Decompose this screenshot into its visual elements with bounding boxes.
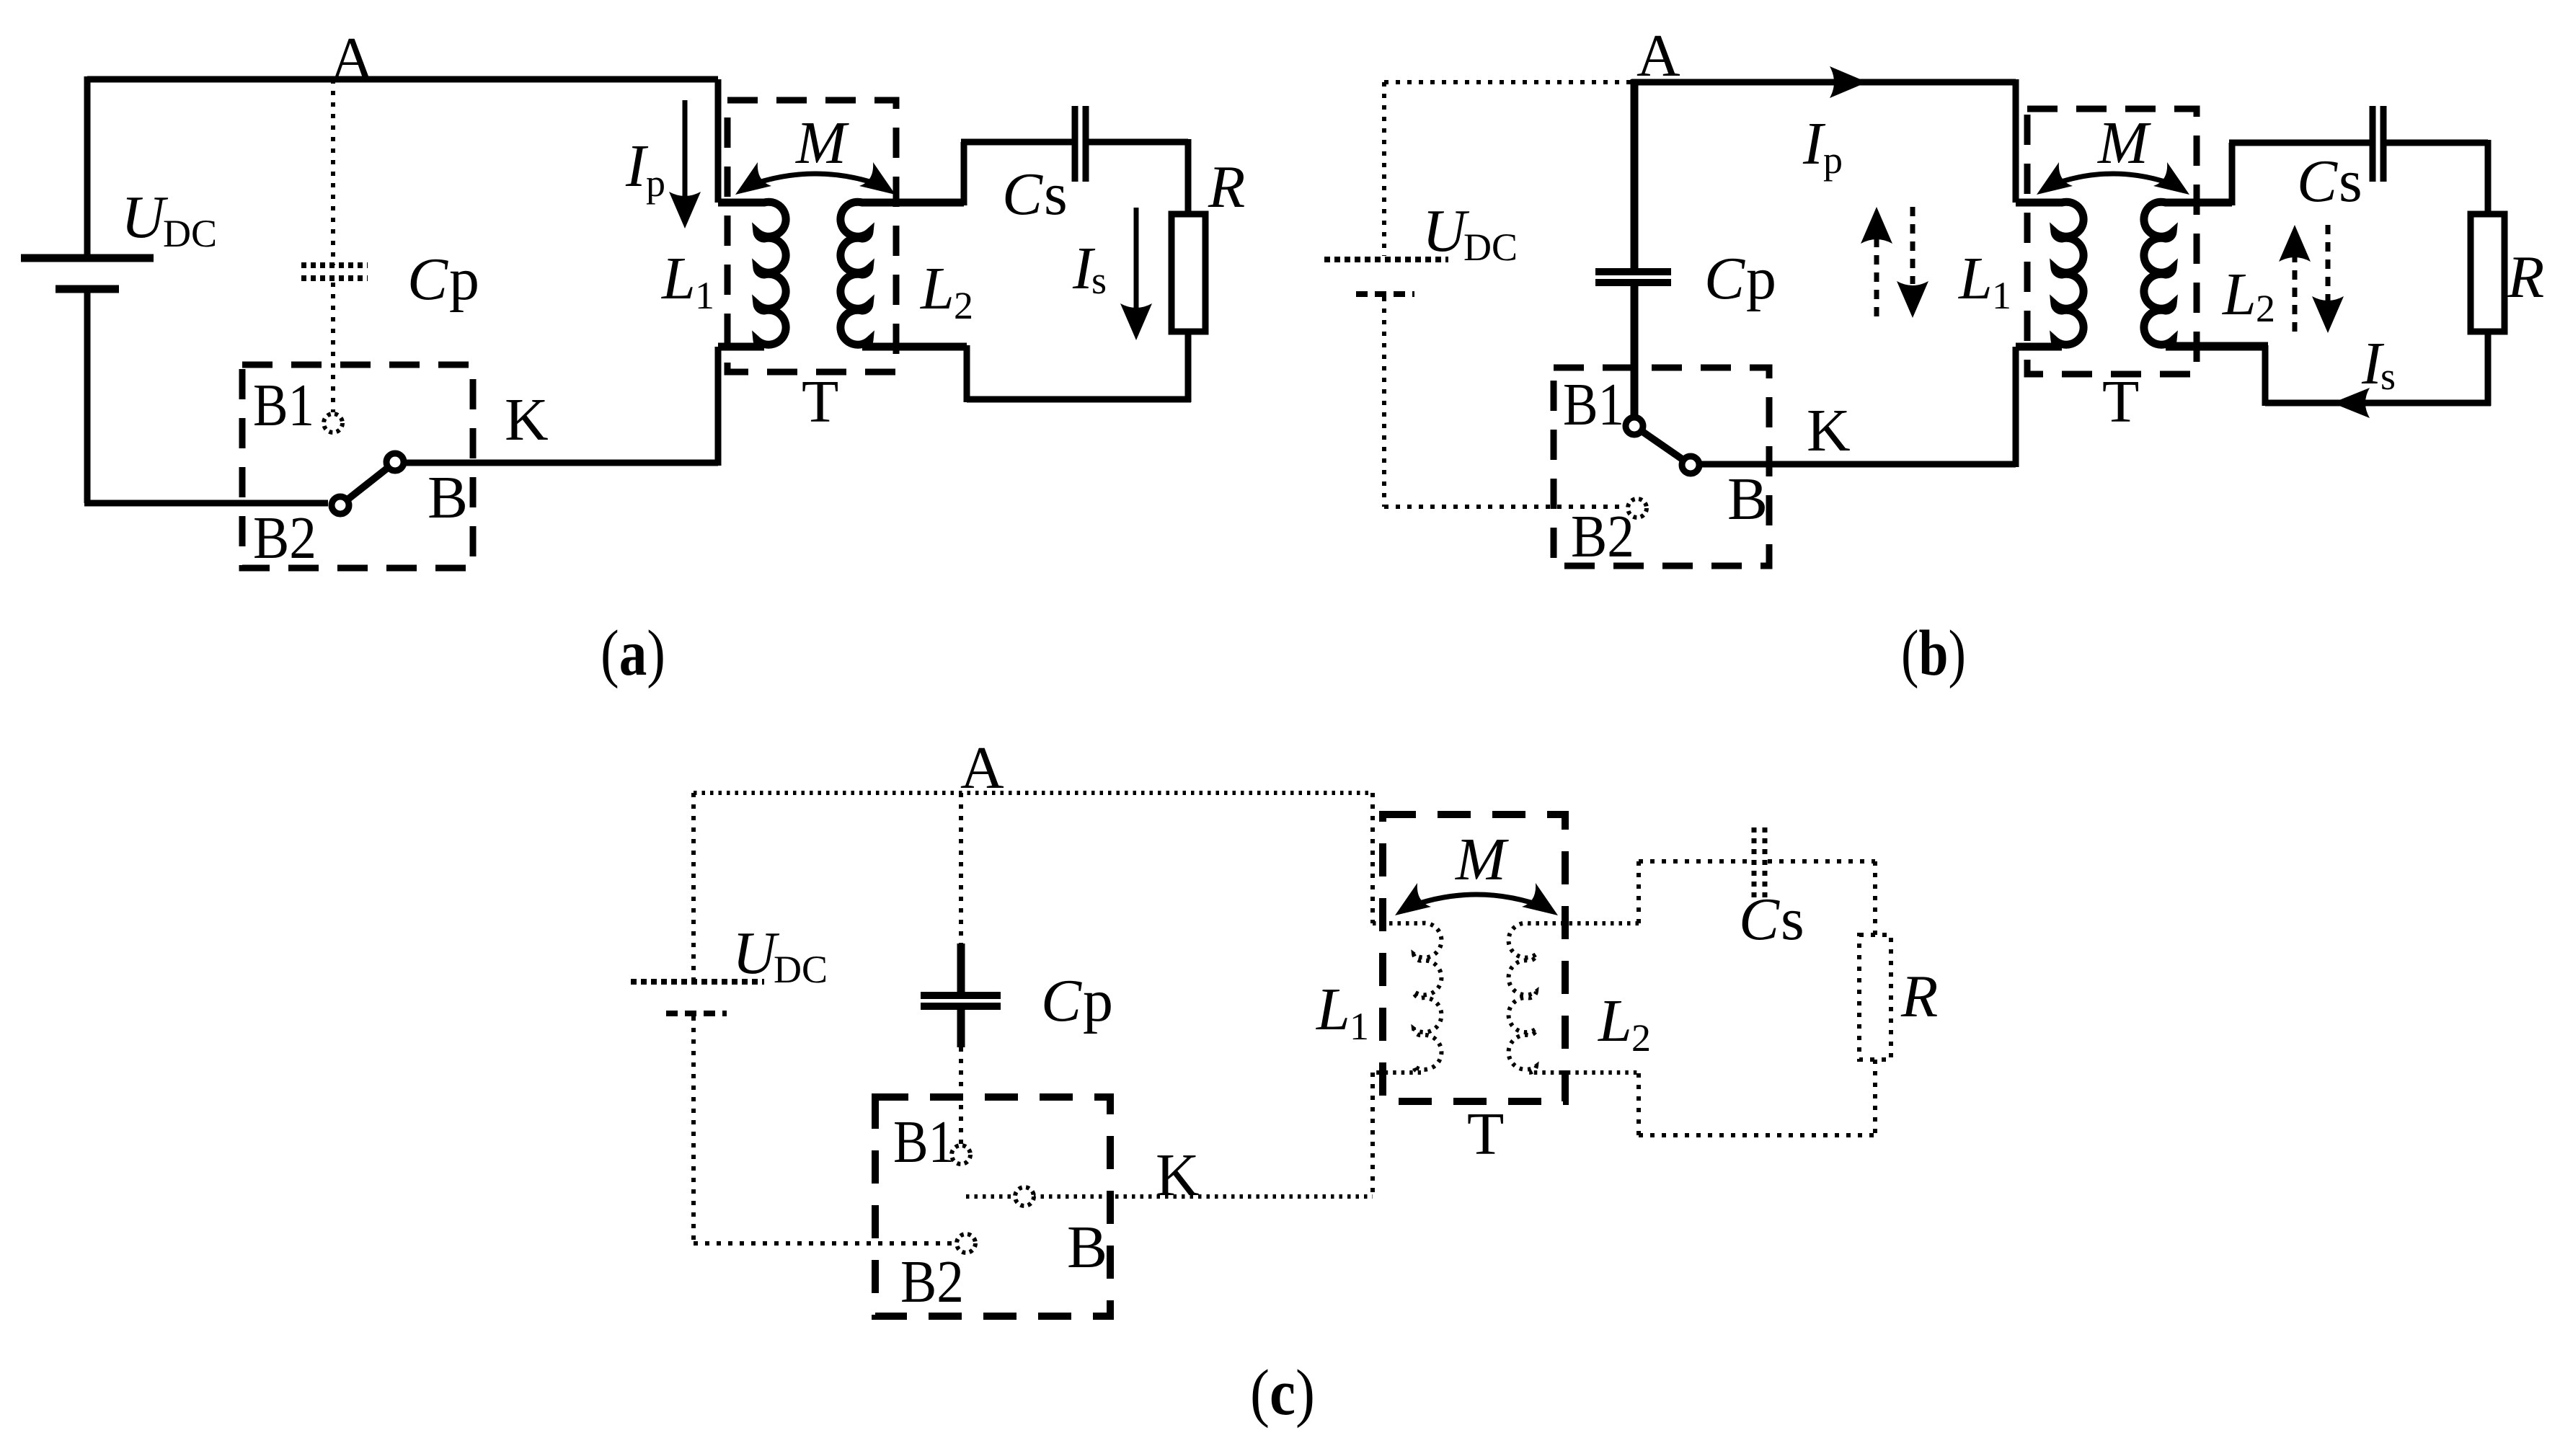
capacitor Cp dotted plate bottom	[301, 275, 368, 281]
wire dotted Cp to B1	[959, 1047, 963, 1145]
wire dotted L1 bottom down to K	[1370, 1073, 1375, 1197]
capacitor Cp plate top	[921, 992, 1001, 999]
switch lever B2 to B	[340, 462, 395, 505]
wire K from pole B to L1 bottom	[1699, 461, 2016, 468]
svg-text:C: C	[407, 246, 448, 313]
wire dotted R bottom down	[1873, 1060, 1877, 1135]
resistor R body	[1172, 214, 1205, 332]
battery UDC dotted positive plate	[1324, 257, 1448, 262]
wire dotted down to R	[1873, 861, 1877, 935]
svg-text:DC: DC	[1463, 226, 1518, 269]
svg-text:C: C	[1041, 967, 1082, 1034]
wire secondary bottom rail	[2265, 400, 2491, 407]
wire dotted bottom to B2	[694, 1241, 956, 1246]
svg-text:B: B	[428, 464, 468, 531]
battery UDC dotted positive plate	[631, 979, 764, 985]
pole B circle	[386, 453, 404, 471]
svg-text:A: A	[330, 25, 374, 92]
svg-text:A: A	[960, 734, 1004, 802]
svg-text:s: s	[1044, 161, 1068, 228]
svg-text:s: s	[2339, 148, 2362, 215]
svg-text:K: K	[1807, 397, 1851, 464]
capacitor Cs dashed plate right	[1763, 827, 1768, 897]
svg-text:B1: B1	[893, 1109, 955, 1176]
wire Cs to R corner	[1089, 139, 1188, 146]
svg-text:M: M	[1455, 826, 1509, 893]
wire bottom rail to switch B2	[84, 500, 328, 507]
transformer T box bold dashed	[1383, 814, 1565, 1101]
wire dotted Cp branch lower to B1	[331, 283, 335, 412]
M arrowhead right	[2153, 162, 2189, 195]
mutual inductance M arc	[2045, 174, 2181, 187]
wire up to L2 bottom	[2262, 345, 2269, 406]
wire down to R	[2485, 140, 2492, 214]
terminal B1 dotted circle	[324, 414, 342, 432]
battery UDC dashed negative plate	[1356, 291, 1414, 297]
wire dotted UDC top	[1384, 80, 1631, 84]
current arrows secondary dashed up	[2293, 257, 2298, 332]
capacitor Cs plate right	[1083, 106, 1089, 182]
battery UDC dashed negative plate	[666, 1011, 727, 1016]
svg-text:s: s	[1091, 259, 1107, 302]
svg-text:K: K	[505, 386, 549, 453]
svg-text:p: p	[646, 161, 665, 205]
wire A down to Cp	[1631, 79, 1639, 268]
svg-text:B1: B1	[1563, 371, 1624, 438]
wire top A: battery plus to L1	[87, 76, 718, 83]
capacitor Cs plate right	[2380, 106, 2387, 182]
svg-text:1: 1	[1350, 1005, 1369, 1048]
pole B circle	[1682, 456, 1699, 474]
svg-text:B: B	[1067, 1214, 1107, 1281]
wire up to L2 bottom	[964, 345, 970, 402]
wire R bottom down	[1185, 332, 1192, 402]
wire dotted right vertical down to L1	[1370, 793, 1375, 923]
wire dotted secondary top rail to Cs	[1639, 859, 1748, 864]
svg-text:2: 2	[1631, 1016, 1651, 1060]
svg-text:K: K	[1156, 1142, 1200, 1209]
transformer T box dashed	[727, 100, 896, 372]
switch box dashed	[1554, 368, 1769, 566]
M arrowhead right	[859, 162, 895, 195]
wire dotted L2 top up to secondary rail	[1636, 861, 1641, 923]
svg-text:L: L	[1316, 976, 1350, 1043]
svg-text:R: R	[1900, 963, 1938, 1030]
current arrows primary dashed down	[1910, 207, 1915, 284]
wire secondary bottom rail	[967, 396, 1191, 403]
svg-text:p: p	[449, 246, 479, 313]
wire dotted Cs to corner	[1768, 859, 1875, 864]
wire R bottom down	[2485, 332, 2492, 406]
capacitor Cs plate left	[2370, 106, 2376, 182]
M arrowhead left	[2037, 162, 2073, 195]
svg-text:B2: B2	[1571, 503, 1634, 570]
wire right vertical down from top to L1	[715, 79, 722, 203]
capacitor Cs plate left	[1072, 106, 1079, 182]
terminal B2 circle	[332, 497, 349, 514]
M arrowhead right	[1522, 883, 1558, 915]
capacitor Cp plate bottom	[921, 1003, 1001, 1010]
svg-text:R: R	[1208, 154, 1245, 221]
wire dotted secondary bottom rail	[1639, 1133, 1875, 1137]
capacitor Cp dotted plate top	[301, 262, 368, 268]
wire dotted left vertical upper	[691, 793, 696, 979]
current arrows secondary dashed down	[2326, 225, 2331, 301]
inductor L1 coil	[718, 202, 786, 347]
svg-text:s: s	[2380, 355, 2396, 398]
svg-text:L: L	[2222, 261, 2256, 328]
inductor L2 coil	[2144, 202, 2265, 347]
wire dotted Cp branch upper	[331, 79, 335, 265]
svg-text:L: L	[1598, 987, 1632, 1055]
inductor L2 dotted coil	[1509, 923, 1639, 1073]
terminal B1 circle	[1626, 417, 1643, 435]
svg-text:C: C	[2297, 148, 2338, 215]
wire secondary top rail to Cs	[2229, 140, 2370, 146]
svg-text:DC: DC	[163, 212, 217, 255]
current arrows primary dashed up	[1874, 239, 1879, 316]
wire dotted UDC left vertical upper	[1382, 82, 1386, 256]
wire dotted up to L2 bottom	[1636, 1073, 1641, 1135]
svg-text:B1: B1	[253, 372, 314, 439]
resistor R body	[2471, 214, 2504, 332]
battery UDC negative plate	[56, 285, 119, 293]
wire dotted left vertical lower	[691, 1016, 696, 1243]
svg-text:T: T	[1467, 1101, 1504, 1168]
svg-text:p: p	[1746, 245, 1776, 312]
capacitor Cp top lead	[957, 944, 965, 992]
svg-text:C: C	[1002, 161, 1043, 228]
svg-text:C: C	[1704, 245, 1745, 312]
transformer T box dashed	[2027, 109, 2197, 374]
wire dotted top rail A	[694, 791, 1373, 795]
svg-text:2: 2	[954, 284, 973, 327]
svg-text:B2: B2	[900, 1248, 964, 1315]
inductor L1 coil	[2016, 202, 2083, 347]
capacitor Cp plate bottom	[1595, 279, 1671, 286]
current Ip arrow shaft	[683, 100, 688, 196]
current Is arrow shaft	[1134, 208, 1139, 308]
wire down to R	[1185, 139, 1192, 214]
svg-text:T: T	[802, 368, 838, 435]
wire secondary top rail to Cs	[961, 139, 1073, 146]
wire L1 bottom down to K	[2013, 347, 2019, 467]
svg-text:M: M	[2097, 110, 2151, 177]
M arrowhead left	[1395, 883, 1431, 915]
svg-text:C: C	[1739, 886, 1780, 953]
capacitor Cs dashed plate left	[1752, 827, 1757, 897]
M arrowhead left	[735, 162, 771, 195]
capacitor Cp plate top	[1595, 268, 1671, 275]
switch box bold dashed	[875, 1097, 1110, 1316]
svg-text:B2: B2	[253, 505, 316, 572]
svg-text:(c): (c)	[1250, 1357, 1315, 1429]
svg-text:U: U	[121, 184, 169, 251]
wire K from pole B to L1 bottom	[404, 460, 718, 466]
svg-text:M: M	[795, 110, 849, 177]
switch lever B1 to B	[1634, 426, 1691, 465]
wire L2 top up to secondary rail	[2229, 143, 2236, 205]
terminal B2 dotted circle	[957, 1234, 975, 1253]
wire dotted UDC bottom to B2	[1384, 505, 1626, 509]
svg-text:DC: DC	[774, 948, 828, 991]
terminal B1 dotted circle	[952, 1145, 970, 1164]
wire Cs to corner	[2386, 140, 2488, 146]
current Is arrowhead	[1120, 303, 1152, 340]
pole B dotted circle	[1015, 1187, 1034, 1206]
battery UDC positive plate	[21, 254, 154, 262]
svg-text:1: 1	[1992, 274, 2011, 317]
inductor L2 coil	[841, 202, 967, 347]
svg-text:2: 2	[2256, 287, 2275, 330]
wire dotted K rail	[966, 1194, 1373, 1199]
resistor R dotted body	[1859, 935, 1891, 1060]
mutual inductance M arc	[1405, 895, 1548, 908]
capacitor Cp bottom lead	[957, 1010, 965, 1047]
wire battery bottom lead down to bottom rail	[84, 293, 91, 503]
svg-text:(a): (a)	[601, 618, 665, 689]
wire L2 top up to secondary rail	[961, 142, 967, 205]
wire dotted Cp branch upper	[959, 793, 963, 945]
wire Cp down to B1	[1631, 286, 1639, 417]
terminal B2 dotted circle	[1628, 499, 1647, 518]
current Ip arrowhead	[669, 192, 701, 228]
svg-text:B: B	[1727, 466, 1768, 533]
svg-text:1: 1	[695, 274, 714, 317]
current Is arrowhead on bottom rail	[2332, 388, 2370, 418]
svg-text:L: L	[661, 245, 696, 312]
svg-text:T: T	[2102, 368, 2139, 435]
switch box dashed	[242, 365, 473, 568]
svg-text:L: L	[920, 255, 955, 322]
wire L2 bottom rail	[2170, 342, 2268, 349]
mutual inductance M arc	[744, 174, 887, 187]
wire L1 bottom down to K	[715, 347, 722, 466]
wire top rail A to L1	[1631, 79, 2016, 86]
wire dotted UDC left vertical lower	[1382, 297, 1386, 507]
svg-text:R: R	[2507, 244, 2544, 311]
wire left vertical battery top lead	[84, 76, 91, 254]
inductor L1 dotted coil	[1373, 923, 1441, 1073]
svg-text:p: p	[1083, 967, 1113, 1034]
svg-text:L: L	[1958, 245, 1993, 312]
svg-text:s: s	[1781, 886, 1804, 953]
wire right vertical top rail down to L1	[2013, 79, 2019, 203]
svg-text:(b): (b)	[1901, 618, 1966, 689]
current Ip arrowhead on top rail	[1830, 66, 1867, 98]
svg-text:p: p	[1823, 138, 1843, 182]
